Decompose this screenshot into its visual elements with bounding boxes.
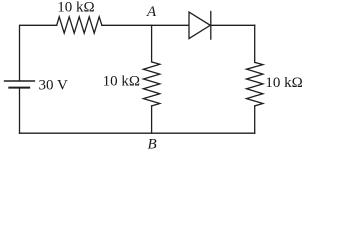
- svg-text:30 V: 30 V: [39, 78, 68, 94]
- wire right branch upper lead: [254, 25, 256, 62]
- resistor R3 10 kOhm (right, vertical): [247, 62, 263, 106]
- diode D1 cathode bar: [210, 12, 212, 40]
- wire top-left segment: [20, 25, 57, 80]
- battery V1 short plate (negative): [9, 87, 29, 89]
- resistor R2 10 kOhm (middle, vertical): [143, 62, 159, 106]
- wire right branch lower lead: [254, 106, 256, 133]
- resistor R1 10 kOhm (top, horizontal): [57, 17, 102, 33]
- diode D1 triangle (anode): [189, 12, 210, 38]
- wire middle branch lower lead to node B: [151, 106, 153, 133]
- svg-text:B: B: [148, 137, 157, 153]
- svg-text:10 kΩ: 10 kΩ: [57, 0, 94, 16]
- svg-text:10 kΩ: 10 kΩ: [265, 75, 302, 91]
- wire from R1 to node A and diode: [102, 24, 189, 26]
- bottom wire: [20, 132, 255, 134]
- wire battery to bottom-left corner: [19, 88, 21, 133]
- wire from diode to top-right corner: [211, 24, 255, 26]
- battery V1 long plate (positive): [5, 80, 35, 82]
- wire node A branch upper lead: [151, 25, 153, 62]
- svg-text:A: A: [146, 4, 157, 20]
- svg-text:10 kΩ: 10 kΩ: [103, 74, 140, 90]
